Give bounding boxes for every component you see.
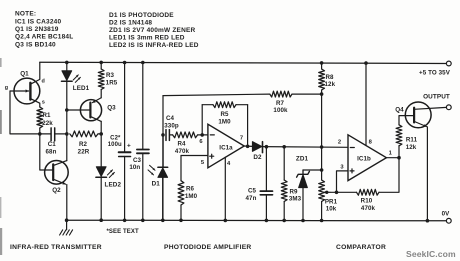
svg-text:IC1 IS CA3240: IC1 IS CA3240	[15, 18, 62, 25]
wire pin5	[181, 155, 208, 157]
svg-text:INFRA-RED TRANSMITTER: INFRA-RED TRANSMITTER	[10, 244, 102, 251]
node R1/C1/Q2-base junction	[38, 132, 42, 136]
label 100k	[273, 107, 288, 114]
label R4	[177, 140, 186, 147]
svg-text:100k: 100k	[273, 107, 288, 114]
label Q1	[20, 71, 29, 78]
svg-text:12k: 12k	[324, 81, 335, 88]
wire top supply rail	[40, 62, 447, 63]
wire R5 column down to output	[247, 105, 249, 147]
svg-text:R3: R3	[106, 72, 115, 79]
label R9	[289, 188, 298, 195]
label 22k	[42, 120, 53, 127]
node C5/0V junction	[265, 219, 269, 223]
svg-text:Q2,4 ARE BC184L: Q2,4 ARE BC184L	[15, 34, 73, 41]
note text block left	[15, 11, 73, 49]
transistor Q3 emitter lead with arrow	[92, 98, 101, 103]
wire IC1a output	[244, 145, 252, 147]
svg-text:R1: R1	[42, 112, 51, 119]
svg-text:g: g	[5, 85, 8, 91]
svg-text:R5: R5	[220, 111, 229, 118]
wire gate feedback left column	[10, 91, 40, 134]
svg-text:4: 4	[227, 161, 231, 167]
wire D1 to 0V rail	[162, 177, 164, 220]
label *SEE TEXT	[107, 229, 139, 235]
capacitor C3 plates	[137, 150, 149, 154]
transistor Q1 gate lead with arrow	[10, 89, 29, 92]
svg-text:ZD1: ZD1	[296, 156, 309, 163]
wire supply to C2 plate	[124, 63, 126, 152]
label s	[42, 100, 45, 106]
transistor Q4 circle	[405, 102, 431, 128]
resistor R7	[270, 91, 292, 97]
label C2*	[110, 135, 121, 141]
ground	[60, 230, 73, 235]
wire pin8 from supply	[365, 63, 367, 145]
wire bottom 0V rail	[67, 219, 447, 222]
label PHOTODIODE AMPLIFIER	[164, 244, 251, 251]
capacitor C2 plates	[119, 152, 131, 156]
transistor Q2 collector lead	[53, 161, 67, 166]
transistor Q4 collector lead	[414, 107, 446, 109]
label R6	[186, 186, 195, 193]
wire column to PR1	[321, 170, 323, 180]
label 330p	[164, 123, 179, 130]
label 22R	[78, 148, 90, 155]
svg-text:SeekIC.com: SeekIC.com	[406, 249, 456, 259]
wire supply to R3	[100, 62, 102, 69]
pin 7	[240, 136, 243, 142]
node IC1b output junction	[397, 156, 401, 160]
transistor Q1 source lead	[30, 99, 39, 107]
svg-text:s: s	[42, 100, 45, 106]
transistor Q2 emitter lead with arrow	[53, 179, 65, 184]
svg-text:LED1 IS 3mm RED LED: LED1 IS 3mm RED LED	[109, 34, 185, 41]
label 47n	[246, 195, 257, 202]
LED LED2 emission arrows	[107, 170, 114, 178]
label C3	[133, 157, 142, 164]
node supply/R3 junction	[99, 61, 103, 65]
label 12k	[406, 144, 417, 151]
wire pin6 node up	[201, 105, 203, 135]
wire R9 to 0V rail	[283, 202, 285, 221]
transistor Q3 circle	[80, 100, 101, 121]
label D2	[253, 154, 262, 161]
svg-text:330p: 330p	[164, 123, 179, 130]
node R9 junction	[282, 145, 286, 149]
node PR1 wiper junction	[325, 191, 328, 194]
node supply/C3 junction	[141, 61, 145, 65]
label R8	[325, 74, 334, 81]
resistor R1	[37, 107, 43, 128]
wire tap to C1/R2 node	[66, 110, 68, 134]
node Q3-collector/R2 junction	[99, 132, 103, 136]
wire pin3	[337, 171, 349, 192]
LED LED2 cathode bar	[96, 176, 107, 178]
resistor R6	[178, 181, 184, 205]
wire Q2 base from node	[40, 134, 53, 170]
watermark SeekIC.com	[406, 249, 456, 259]
svg-text:47n: 47n	[246, 195, 257, 202]
label g	[5, 85, 8, 91]
label COMPARATOR	[336, 244, 386, 251]
svg-text:R9: R9	[289, 188, 298, 195]
label Q2	[52, 187, 61, 194]
transistor Q4 base bar	[413, 108, 415, 123]
svg-text:470k: 470k	[175, 148, 190, 155]
terminal 0V	[446, 218, 451, 223]
wire R10 to output column	[379, 158, 399, 193]
wire output to R11	[398, 146, 400, 158]
terminal +5 TO 35V	[446, 61, 451, 66]
op-amp IC1a plus	[210, 154, 214, 158]
svg-text:LED1: LED1	[73, 85, 90, 92]
label OUTPUT	[423, 94, 450, 101]
label 1R5	[106, 80, 118, 87]
label 1M0	[218, 119, 231, 126]
svg-text:d: d	[41, 79, 44, 85]
wire photodiode node to R7	[163, 94, 270, 96]
svg-text:*SEE TEXT: *SEE TEXT	[107, 229, 139, 235]
node Q4-emitter/0V junction	[426, 219, 430, 223]
wire bias wire down to C4 node	[162, 96, 164, 135]
svg-text:C1: C1	[48, 141, 57, 148]
wire R1 bottom to node	[39, 128, 41, 134]
svg-text:68n: 68n	[46, 149, 57, 156]
label R10	[361, 198, 373, 205]
wire node to C5	[265, 147, 267, 191]
svg-text:R11: R11	[406, 137, 418, 144]
pin 2	[338, 140, 341, 146]
node R7/R8 junction	[320, 92, 324, 96]
wire supply to LED1	[66, 62, 68, 70]
svg-text:100u: 100u	[108, 142, 122, 148]
node supply/C2 junction	[123, 61, 127, 65]
svg-text:D2 IS 1N4148: D2 IS 1N4148	[109, 19, 152, 26]
transistor Q2 base bar	[52, 164, 54, 180]
wire ZD1 to 0V rail	[302, 187, 304, 220]
wire R5 to output column	[236, 104, 248, 106]
wire R8 to R7 junction	[321, 90, 323, 94]
transistor Q1 drain lead	[30, 62, 39, 84]
LED LED2 triangle	[96, 167, 106, 177]
wire Q3 base	[67, 109, 90, 111]
wire node to R9	[283, 147, 285, 180]
svg-text:R4: R4	[177, 140, 186, 147]
resistor R4	[173, 132, 198, 138]
svg-text:R10: R10	[361, 198, 373, 205]
pin 3	[340, 165, 344, 171]
wire R8 junction down to comparator node	[321, 94, 323, 147]
node R6/0V junction	[179, 219, 183, 223]
wire R3 to Q3 emitter	[100, 90, 102, 98]
node C3/0V junction	[141, 219, 145, 223]
label C2 plus	[127, 143, 131, 150]
wire supply to C3 plate	[142, 63, 144, 149]
label R5	[220, 111, 229, 118]
pin 5	[201, 160, 205, 166]
label IC1a	[219, 144, 233, 151]
transistor Q3 collector lead	[90, 116, 101, 121]
wire to R5	[202, 104, 213, 106]
svg-text:LED2 IS IS INFRA-RED LED: LED2 IS IS INFRA-RED LED	[109, 42, 199, 49]
preset PR1 body	[319, 180, 325, 202]
node IC1a output junction	[246, 145, 250, 149]
svg-text:D1: D1	[152, 181, 161, 188]
diode D2 triangle	[252, 142, 261, 152]
wire C5 to 0V rail	[265, 195, 267, 221]
label 470k	[175, 148, 190, 155]
label R3	[106, 72, 115, 79]
node ZD1/0V junction	[301, 219, 305, 223]
pin 8	[369, 140, 373, 146]
svg-text:C2*: C2*	[110, 135, 121, 141]
svg-text:3: 3	[340, 165, 344, 171]
svg-text:IC1a: IC1a	[219, 144, 233, 151]
svg-text:470k: 470k	[361, 205, 376, 212]
label Q4	[395, 107, 404, 114]
wire LED2 to 0V rail	[100, 177, 102, 220]
node ZD1 tap junction	[320, 168, 324, 172]
svg-text:Q2: Q2	[52, 187, 61, 194]
op-amp IC1b minus	[350, 147, 354, 149]
svg-text:Q1: Q1	[20, 71, 29, 78]
zener ZD1 stub	[302, 170, 304, 174]
label Q3	[107, 105, 116, 112]
LED LED1 emission arrows	[73, 75, 80, 83]
svg-text:OUTPUT: OUTPUT	[423, 94, 450, 101]
label C4	[166, 115, 175, 122]
label LED1	[73, 85, 90, 92]
note text block right	[109, 12, 199, 49]
zener ZD1 triangle	[299, 175, 308, 188]
node D1/C4 junction	[161, 133, 165, 137]
label 10k	[326, 206, 337, 213]
resistor R5	[213, 102, 236, 108]
svg-text:10k: 10k	[326, 206, 337, 213]
svg-text:C5: C5	[248, 188, 257, 195]
wire IC1b output	[386, 157, 399, 159]
LED LED1 cathode bar	[62, 80, 73, 82]
wire tap to ZD1	[303, 169, 322, 171]
wire node to LED2	[100, 134, 102, 167]
resistor R2	[70, 131, 98, 137]
svg-text:R7: R7	[276, 100, 285, 107]
svg-text:R8: R8	[325, 74, 334, 81]
wire wiper to R10	[330, 191, 357, 193]
wire column to ZD1 tap	[321, 147, 323, 170]
svg-text:3M3: 3M3	[289, 196, 302, 203]
node column junction	[320, 145, 324, 149]
node supply/LED1 junction	[65, 61, 69, 65]
op-amp IC1a	[208, 124, 244, 168]
wire C4 to R4	[170, 134, 173, 136]
node LED2/0V junction	[99, 218, 103, 222]
svg-text:1: 1	[389, 150, 393, 156]
svg-text:5: 5	[201, 160, 205, 166]
svg-text:R2: R2	[79, 141, 88, 148]
label 100u	[108, 142, 122, 148]
label 68n	[46, 149, 57, 156]
pin 4	[227, 161, 231, 167]
preset PR1 wiper arrow	[324, 191, 330, 194]
label d	[41, 79, 44, 85]
svg-text:PHOTODIODE AMPLIFIER: PHOTODIODE AMPLIFIER	[164, 244, 251, 251]
svg-text:0V: 0V	[442, 211, 451, 218]
label C1	[48, 141, 57, 148]
label LED2	[105, 181, 122, 188]
wire supply to R8	[321, 63, 323, 69]
svg-text:Q4: Q4	[395, 107, 404, 114]
node D1/0V junction	[161, 219, 165, 223]
label D1	[152, 181, 161, 188]
wire R2 to Q3 collector column	[98, 133, 101, 135]
wire pin4 to 0V rail	[224, 157, 226, 220]
capacitor C1 plates	[51, 128, 55, 141]
resistor R3	[98, 69, 104, 90]
svg-text:C3: C3	[133, 157, 142, 164]
label PR1	[325, 198, 338, 205]
capacitor C4 plates	[166, 130, 169, 141]
wire D2 to IC1b pin2	[263, 146, 349, 149]
wire R4 to pin6 node	[198, 134, 203, 136]
wire Q2 emitter to 0V rail	[66, 185, 68, 221]
diode D2 cathode bar	[262, 142, 264, 153]
label 12k	[324, 81, 335, 88]
wire C3 to 0V rail	[142, 153, 144, 220]
op-amp IC1a minus	[210, 134, 214, 136]
resistor R9	[281, 180, 287, 202]
label R2	[79, 141, 88, 148]
label INFRA-RED TRANSMITTER	[10, 244, 102, 251]
pin 6	[199, 139, 203, 145]
node R4/R5/pin6 junction	[200, 133, 204, 137]
wire R6 to 0V rail	[180, 205, 182, 220]
wire pin5 to R6	[180, 156, 182, 181]
wire pin6	[202, 134, 208, 136]
node PR1/0V junction	[320, 219, 324, 223]
svg-text:Q1 IS 2N3819: Q1 IS 2N3819	[15, 26, 59, 33]
label 470k	[361, 205, 376, 212]
node supply/R8 junction	[320, 61, 324, 65]
photodiode D1 light arrows	[148, 165, 155, 175]
transistor Q1 circle	[14, 78, 40, 104]
wire PR1 to 0V rail	[321, 202, 323, 221]
wire C2 to 0V rail	[124, 157, 126, 221]
svg-text:PR1: PR1	[325, 198, 338, 205]
svg-text:12k: 12k	[406, 144, 417, 151]
zener ZD1 cathode bar	[297, 171, 310, 177]
svg-text:1M0: 1M0	[218, 119, 231, 126]
wire Q4 emitter to 0V rail	[426, 127, 428, 221]
node C5 junction	[265, 145, 269, 149]
label 0V	[442, 211, 451, 218]
label R11	[406, 137, 418, 144]
resistor R11	[396, 125, 402, 146]
svg-text:IC1b: IC1b	[357, 156, 371, 163]
resistor R10	[357, 189, 380, 195]
svg-text:ZD1 IS 2V7 400mW ZENER: ZD1 IS 2V7 400mW ZENER	[109, 27, 196, 34]
node R9/0V junction	[282, 219, 286, 223]
node supply/pin8 junction	[364, 61, 368, 65]
terminal OUTPUT	[446, 105, 451, 110]
svg-text:1M0: 1M0	[185, 193, 198, 200]
svg-text:10n: 10n	[129, 164, 140, 171]
svg-text:D1 IS PHOTODIODE: D1 IS PHOTODIODE	[109, 12, 174, 19]
wire node to Q2 collector	[66, 134, 68, 161]
label C5	[248, 188, 257, 195]
node C2/0V junction	[123, 219, 127, 223]
svg-text:+: +	[127, 143, 131, 150]
wire node to C1	[40, 133, 51, 135]
node Q3 base tap junction	[65, 108, 69, 112]
label ZD1	[296, 156, 309, 163]
svg-text:C4: C4	[166, 115, 175, 122]
ground stub	[66, 220, 68, 230]
label 3M3	[289, 196, 302, 203]
svg-text:2: 2	[338, 140, 341, 146]
label 1M0	[185, 193, 198, 200]
node LED1-column/R2 junction	[65, 132, 69, 136]
label IC1b	[357, 156, 371, 163]
svg-text:1R5: 1R5	[106, 80, 118, 87]
wire C1 to LED1 column	[55, 133, 67, 135]
label R1	[42, 112, 51, 119]
svg-text:D2: D2	[253, 154, 262, 161]
svg-text:7: 7	[240, 136, 243, 142]
transistor Q2 circle	[45, 161, 69, 185]
label 10n	[129, 164, 140, 171]
wire R11 to Q4 base	[399, 116, 413, 125]
transistor Q4 emitter lead with arrow	[414, 121, 427, 127]
label R7	[276, 100, 285, 107]
node Q2-emitter/0V junction	[65, 218, 69, 222]
transistor Q3 base bar	[89, 103, 91, 118]
pin 1	[389, 150, 393, 156]
svg-text:22k: 22k	[42, 120, 53, 127]
svg-text:R6: R6	[186, 186, 195, 193]
transistor Q1 channel bar	[29, 83, 31, 100]
label +5 TO 35V	[419, 70, 451, 77]
node pin3 branch junction	[335, 191, 339, 195]
wire Q3 collector to R2 node	[100, 121, 102, 133]
svg-text:6: 6	[199, 139, 203, 145]
photodiode D1 cathode bar	[158, 166, 168, 168]
svg-text:8: 8	[369, 140, 373, 146]
svg-text:22R: 22R	[78, 148, 90, 155]
resistor R8	[319, 69, 325, 90]
op-amp IC1b	[348, 135, 386, 181]
photodiode D1 triangle	[158, 168, 168, 177]
wire node to D1	[162, 135, 164, 167]
capacitor C5 plates	[260, 191, 272, 195]
svg-text:LED2: LED2	[105, 181, 122, 188]
svg-text:Q3 IS BD140: Q3 IS BD140	[15, 41, 56, 48]
LED LED1 triangle	[62, 71, 72, 81]
wire LED1 to Q3-base tap	[66, 81, 68, 110]
wire R7 to R8 column	[292, 93, 322, 95]
svg-text:COMPARATOR: COMPARATOR	[336, 244, 386, 251]
svg-text:+5 TO 35V: +5 TO 35V	[419, 70, 451, 77]
op-amp IC1b plus	[350, 169, 354, 173]
node pin4/0V junction	[224, 219, 228, 223]
svg-text:NOTE:: NOTE:	[15, 11, 36, 18]
svg-text:Q3: Q3	[107, 105, 116, 112]
